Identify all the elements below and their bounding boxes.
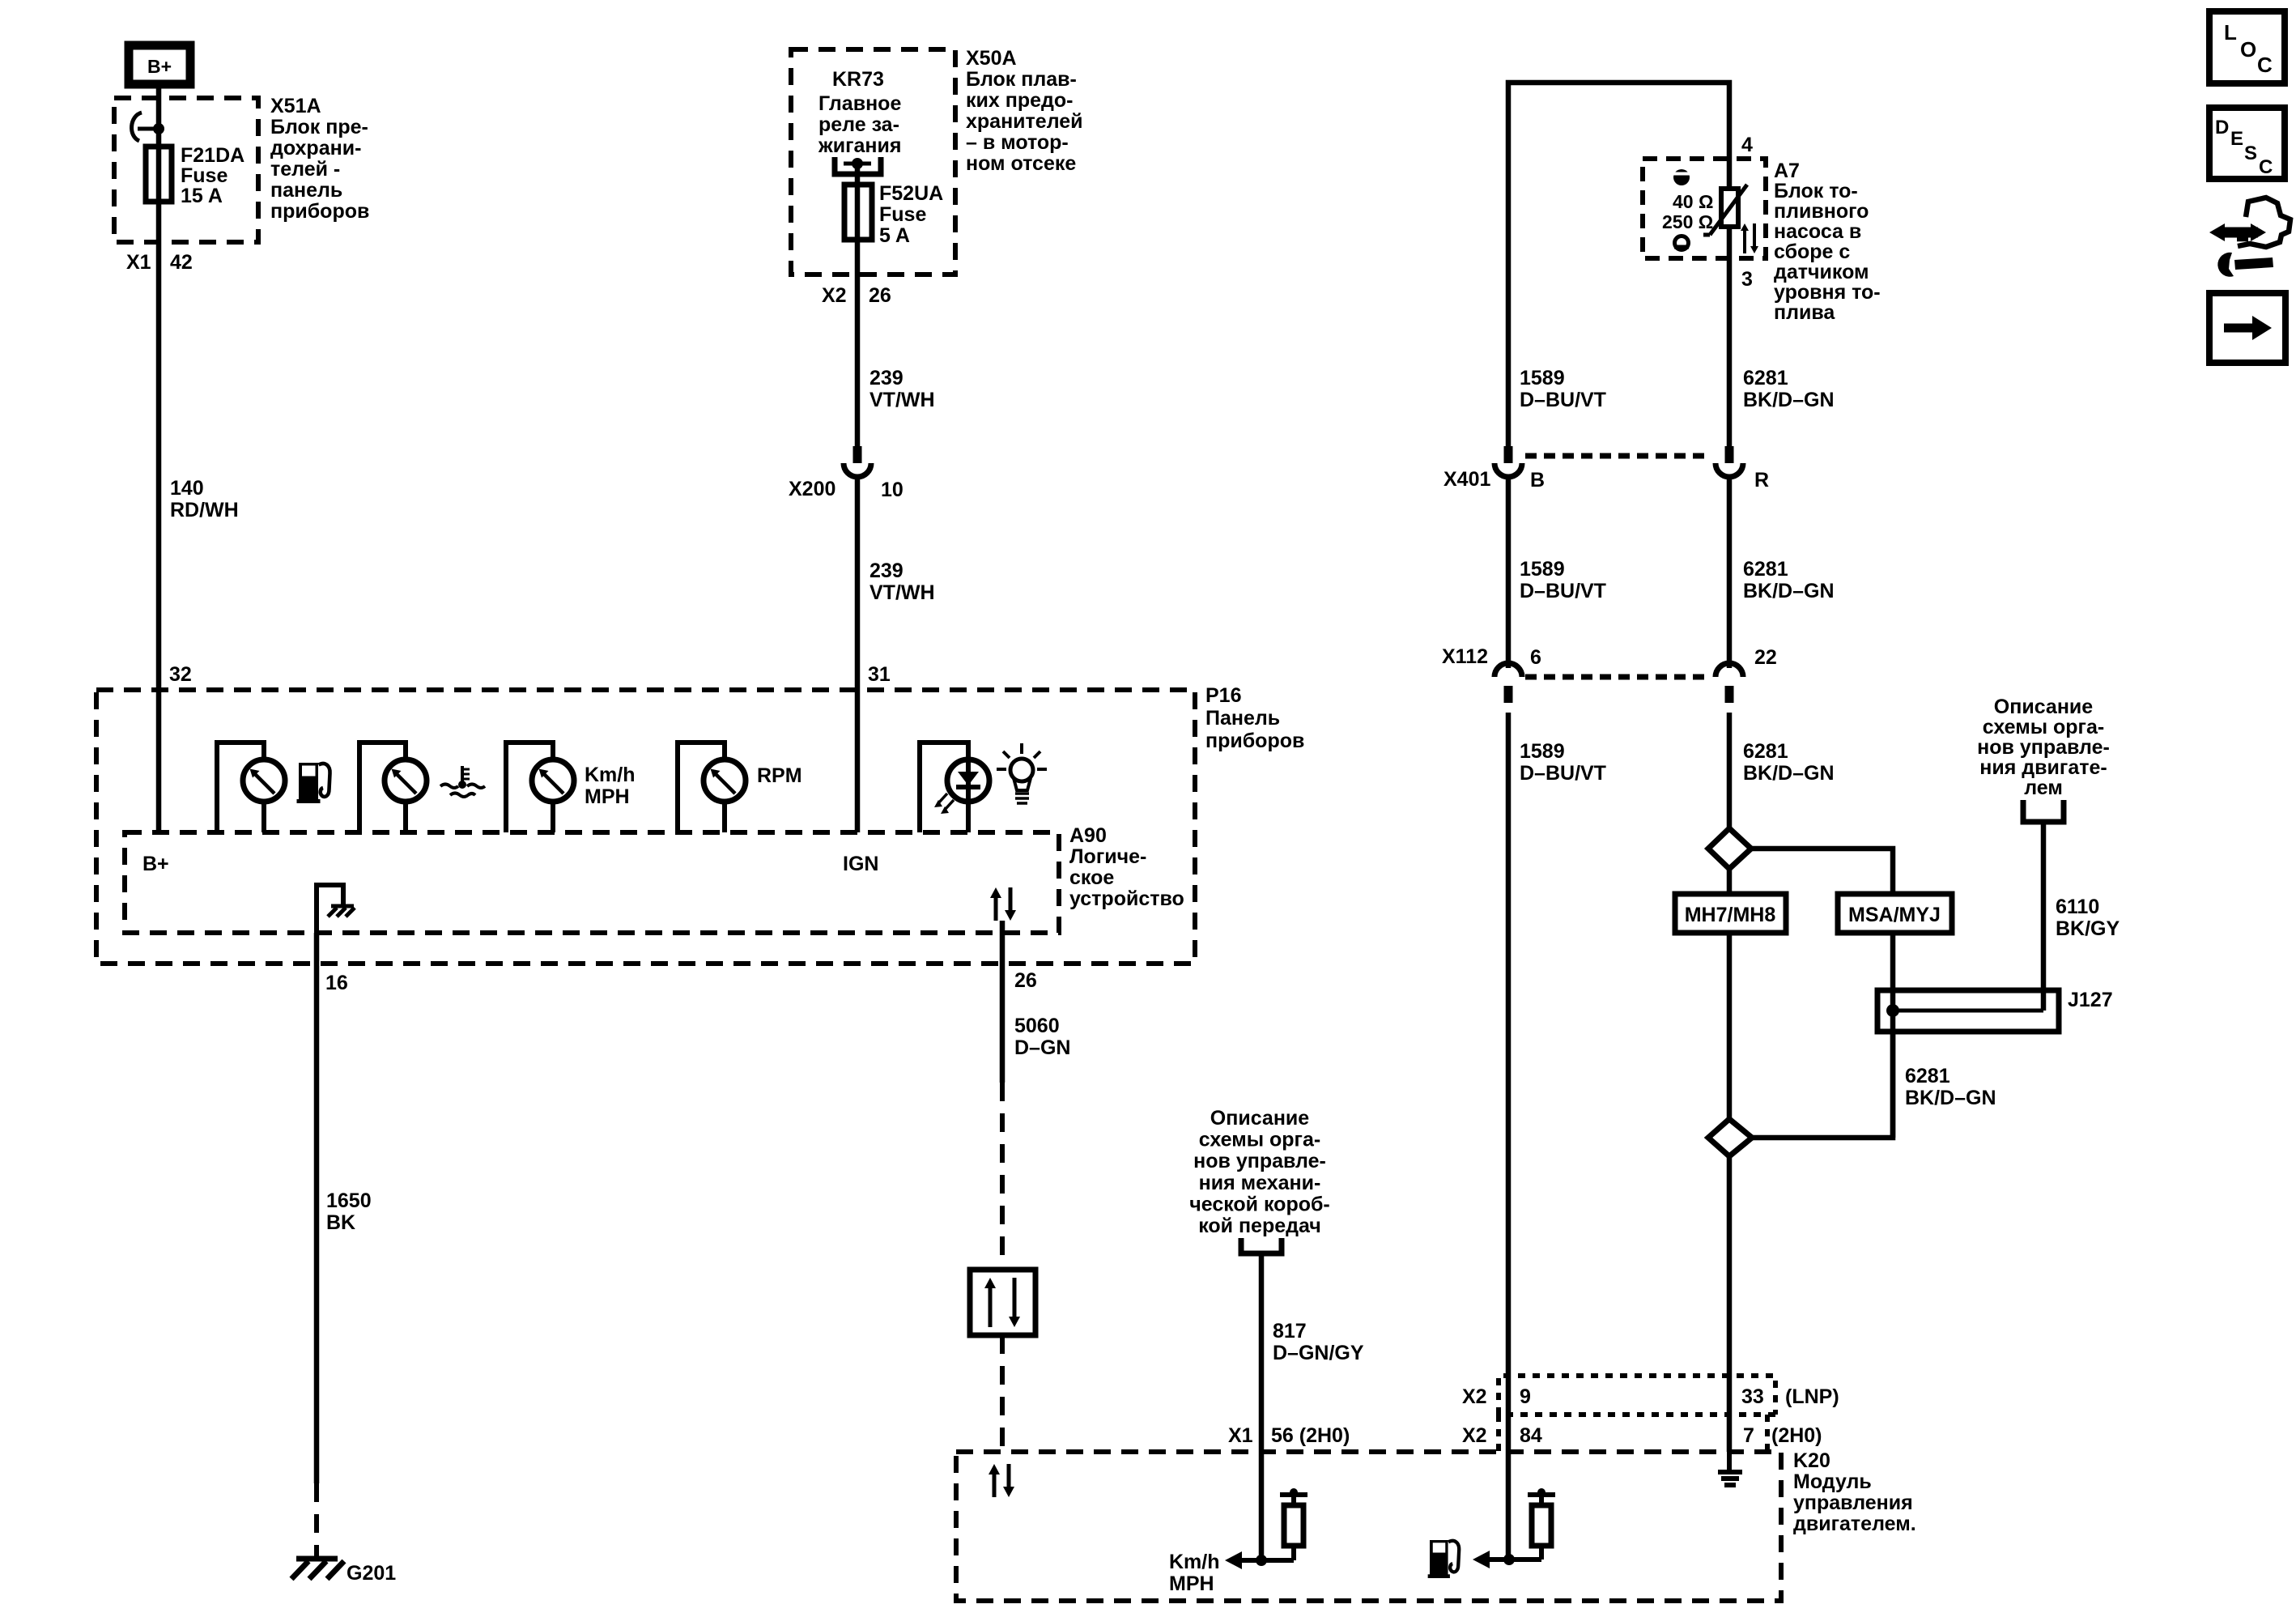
svg-text:A90: A90: [1069, 824, 1107, 847]
svg-text:A7: A7: [1774, 160, 1800, 182]
svg-text:MH7/MH8: MH7/MH8: [1685, 904, 1776, 926]
svg-text:хранителей: хранителей: [966, 110, 1083, 133]
arrow to speedometer output: [1230, 1558, 1294, 1563]
svg-text:X401: X401: [1444, 468, 1490, 491]
svg-text:9: 9: [1520, 1385, 1531, 1408]
svg-text:Панель: Панель: [1205, 707, 1280, 730]
svg-text:S: S: [2244, 143, 2257, 164]
fuse holder clip symbol in X51A: [132, 113, 142, 141]
splice diamond S1: [1708, 828, 1751, 869]
wire 1589 down to K20: [1506, 713, 1512, 1560]
temperature icon by gauge G2: [461, 766, 464, 783]
connector X401 B male pin: [1504, 446, 1513, 463]
instrument panel P16 dashed box: [96, 690, 1195, 964]
fuel pump icon in K20: [1428, 1540, 1460, 1578]
wire from B+ down through X51A fuse block to P16 pin 32: [156, 88, 162, 690]
svg-text:управления: управления: [1793, 1491, 1913, 1514]
svg-text:6281: 6281: [1743, 740, 1788, 763]
connector X401 B female socket: [1495, 463, 1522, 477]
junction node on relay contact: [852, 158, 863, 169]
svg-text:O: O: [2240, 37, 2256, 62]
pull-up resistor on speed signal: [1290, 1488, 1298, 1496]
svg-text:BK/D–GN: BK/D–GN: [1743, 580, 1835, 602]
svg-text:лем: лем: [2024, 777, 2063, 799]
svg-text:двигателем.: двигателем.: [1793, 1513, 1916, 1535]
svg-text:Km/h: Km/h: [1169, 1551, 1220, 1573]
connector X401 R male pin: [1725, 446, 1734, 463]
svg-text:B+: B+: [142, 853, 169, 875]
svg-text:BK: BK: [326, 1211, 355, 1234]
wire 31 into A90 IGN input: [855, 690, 861, 832]
serial data arrow box: [970, 1270, 1035, 1335]
svg-text:6281: 6281: [1743, 558, 1788, 581]
connector X200 male pin: [853, 446, 862, 463]
svg-text:D–BU/VT: D–BU/VT: [1520, 580, 1606, 602]
svg-text:MPH: MPH: [585, 785, 630, 808]
svg-text:Fuse: Fuse: [879, 203, 926, 226]
svg-text:26: 26: [869, 284, 891, 307]
svg-text:BK/D–GN: BK/D–GN: [1905, 1087, 1996, 1109]
svg-text:22: 22: [1754, 646, 1777, 669]
svg-text:IGN: IGN: [843, 853, 878, 875]
svg-text:приборов: приборов: [270, 200, 369, 223]
svg-text:Логиче-: Логиче-: [1069, 845, 1146, 868]
svg-text:Блок то-: Блок то-: [1774, 180, 1858, 202]
svg-text:239: 239: [870, 560, 904, 582]
svg-text:6: 6: [1530, 646, 1541, 669]
svg-text:31: 31: [868, 663, 891, 686]
dashed wire to G201: [314, 1483, 319, 1556]
svg-text:5060: 5060: [1014, 1015, 1060, 1037]
fuel pump icon by gauge G1: [297, 763, 330, 803]
svg-text:84: 84: [1520, 1424, 1542, 1447]
wire 6281 X112 to diamond: [1727, 713, 1733, 828]
svg-text:1589: 1589: [1520, 558, 1565, 581]
logic device A90 dashed box: [125, 832, 1059, 933]
svg-text:Главное: Главное: [818, 92, 901, 115]
svg-text:Описание: Описание: [1994, 696, 2093, 718]
svg-text:10: 10: [881, 479, 904, 501]
svg-text:J127: J127: [2068, 989, 2113, 1011]
svg-text:7: 7: [1743, 1424, 1754, 1447]
svg-text:G201: G201: [347, 1562, 396, 1585]
junction node on wire 1589: [1503, 1554, 1515, 1565]
svg-text:пливного: пливного: [1774, 200, 1869, 223]
wire 1589 X401 to X112: [1506, 479, 1512, 668]
wire from relay through fuse F52UA to X200: [855, 164, 861, 446]
svg-text:X1: X1: [1228, 1424, 1253, 1447]
arrow to fuel gauge output: [1478, 1557, 1541, 1562]
svg-text:Блок плав-: Блок плав-: [966, 68, 1077, 91]
svg-text:X2: X2: [822, 284, 847, 307]
power feed B+ terminal box: [129, 45, 190, 84]
svg-text:панель: панель: [270, 179, 342, 202]
svg-text:32: 32: [169, 663, 192, 686]
svg-text:схемы орга-: схемы орга-: [1983, 716, 2104, 738]
connector X401 R female socket: [1716, 463, 1743, 477]
svg-text:D–BU/VT: D–BU/VT: [1520, 389, 1606, 411]
svg-text:уровня то-: уровня то-: [1774, 281, 1881, 304]
svg-text:реле за-: реле за-: [818, 113, 899, 136]
svg-text:X112: X112: [1442, 645, 1488, 668]
svg-text:RD/WH: RD/WH: [170, 499, 239, 521]
svg-text:6110: 6110: [2056, 896, 2099, 918]
off-page bracket symbol: [1241, 1238, 1282, 1253]
svg-text:239: 239: [870, 367, 904, 389]
svg-text:ское: ское: [1069, 866, 1114, 889]
wire 6281 from A7 pin 3 to X401 R: [1727, 227, 1733, 446]
svg-text:P16: P16: [1205, 684, 1241, 707]
svg-text:устройство: устройство: [1069, 887, 1184, 910]
svg-text:D–GN: D–GN: [1014, 1036, 1070, 1059]
transmission variant box MSA/MYJ: [1838, 894, 1952, 933]
chassis ground symbol inside A90: [317, 885, 343, 933]
indicator G5 LED lamp bracket: [920, 743, 968, 832]
connector X401 dashed link: [1525, 453, 1711, 459]
splice diamond S2: [1708, 1119, 1752, 1156]
svg-text:B: B: [1530, 469, 1545, 491]
svg-text:Fuse: Fuse: [181, 164, 227, 187]
fuse block X50A dashed box: [791, 49, 955, 274]
junction node on wire at X51A clip: [153, 123, 164, 134]
fuse block X51A dashed box: [114, 98, 258, 242]
svg-text:KR73: KR73: [832, 68, 884, 91]
fuse F52UA 5A: [844, 185, 872, 240]
dashed wire 5060 down to arrow box: [1000, 1083, 1005, 1270]
svg-text:ния механи-: ния механи-: [1199, 1172, 1321, 1194]
svg-text:42: 42: [170, 251, 193, 274]
svg-text:датчиком: датчиком: [1774, 261, 1869, 283]
wire 32 into A90 B+ input: [156, 690, 162, 832]
svg-text:Модуль: Модуль: [1793, 1470, 1872, 1493]
connector X112 22 male pin: [1725, 686, 1734, 703]
LED triangle and cathode bar: [958, 772, 979, 785]
icon box LOC: [2209, 11, 2285, 83]
top loop wire of fuel sender A7: [1508, 83, 1729, 453]
svg-text:(2H0): (2H0): [1771, 1424, 1822, 1447]
svg-text:1589: 1589: [1520, 367, 1565, 389]
svg-text:жигания: жигания: [818, 134, 901, 157]
connector X112 22 female socket: [1716, 663, 1743, 677]
svg-text:817: 817: [1273, 1320, 1307, 1343]
splice pack J127 box: [1877, 990, 2059, 1032]
fuse F21DA 15A: [146, 147, 172, 202]
wire MSA/MYJ down through J127: [1890, 933, 1896, 1138]
svg-text:1650: 1650: [326, 1189, 372, 1212]
svg-text:– в мотор-: – в мотор-: [966, 131, 1069, 154]
empty-level circle in A7: [1675, 236, 1689, 250]
branch wire from J127 to diamond S2: [1752, 1032, 1893, 1138]
svg-text:кой передач: кой передач: [1198, 1215, 1321, 1237]
svg-text:насоса в: насоса в: [1774, 220, 1861, 243]
svg-text:6281: 6281: [1743, 367, 1788, 389]
svg-text:телей -: телей -: [270, 158, 340, 181]
splice bus line inside J127: [1893, 1009, 2043, 1013]
svg-text:B+: B+: [147, 56, 172, 77]
svg-text:1589: 1589: [1520, 740, 1565, 763]
pull-up resistor on fuel signal: [1537, 1488, 1546, 1496]
connector X112 dashed link: [1525, 674, 1711, 680]
svg-text:Km/h: Km/h: [585, 764, 636, 786]
up-down arrows in A7: [1743, 231, 1746, 253]
svg-text:250 Ω: 250 Ω: [1662, 211, 1713, 232]
svg-text:ких предо-: ких предо-: [966, 89, 1073, 112]
wire 817 D-GN/GY down to K20 X1-56: [1259, 1253, 1265, 1560]
svg-text:MPH: MPH: [1169, 1572, 1214, 1595]
wire 1650 BK from pin 16 down: [314, 933, 320, 1483]
wire from diamond S1 to MH7/MH8: [1727, 869, 1733, 894]
svg-text:X2: X2: [1462, 1424, 1487, 1447]
svg-text:16: 16: [325, 972, 348, 994]
wire MH7/MH8 down to diamond S2: [1727, 933, 1733, 1119]
svg-text:140: 140: [170, 477, 204, 500]
light bulb icon by G5: [1010, 759, 1033, 781]
full-level dot in A7: [1673, 169, 1690, 185]
svg-text:X51A: X51A: [270, 95, 321, 117]
svg-text:дохрани-: дохрани-: [270, 137, 361, 160]
relay KR73 contact symbol: [835, 157, 881, 174]
svg-text:C: C: [2259, 156, 2273, 178]
sender A7 dashed box: [1643, 159, 1766, 258]
svg-text:плива: плива: [1774, 301, 1835, 324]
svg-text:X200: X200: [789, 478, 835, 500]
svg-text:сборе с: сборе с: [1774, 240, 1850, 263]
svg-text:VT/WH: VT/WH: [870, 389, 935, 411]
svg-text:F21DA: F21DA: [181, 144, 244, 167]
svg-text:6281: 6281: [1905, 1065, 1950, 1087]
svg-text:ческой короб-: ческой короб-: [1189, 1193, 1330, 1215]
svg-text:D–GN/GY: D–GN/GY: [1273, 1342, 1364, 1364]
svg-text:X2: X2: [1462, 1385, 1487, 1408]
svg-text:нов управле-: нов управле-: [1977, 736, 2110, 759]
LED photon arrows: [938, 794, 947, 803]
svg-text:3: 3: [1741, 268, 1753, 291]
connector row box X2 84-7: [1499, 1415, 1775, 1452]
up-down arrows inside K20: [993, 1474, 997, 1497]
icon box next-page arrow: [2209, 293, 2285, 363]
svg-text:(LNP): (LNP): [1785, 1385, 1839, 1408]
svg-text:BK/D–GN: BK/D–GN: [1743, 762, 1835, 785]
up-down arrows inside arrow box: [989, 1288, 993, 1327]
svg-text:BK/GY: BK/GY: [2056, 917, 2120, 940]
svg-text:E: E: [2230, 128, 2243, 150]
svg-text:приборов: приборов: [1205, 730, 1304, 752]
svg-text:RPM: RPM: [757, 764, 802, 787]
svg-text:BK/D–GN: BK/D–GN: [1743, 389, 1835, 411]
svg-text:D–BU/VT: D–BU/VT: [1520, 762, 1606, 785]
svg-text:ния двигате-: ния двигате-: [1979, 756, 2107, 779]
svg-text:33: 33: [1741, 1385, 1764, 1408]
transmission variant box MH7/MH8: [1675, 894, 1786, 933]
svg-text:26: 26: [1014, 969, 1037, 992]
gauge G2 temperature gauge: [359, 743, 406, 832]
svg-text:ном отсеке: ном отсеке: [966, 152, 1076, 175]
ground symbol inside K20: [1727, 1452, 1732, 1472]
svg-text:R: R: [1754, 469, 1769, 491]
up-down arrows inside A90 output: [994, 898, 998, 921]
svg-text:5 A: 5 A: [879, 224, 910, 247]
gauge G4 tachometer: [678, 743, 725, 832]
svg-text:VT/WH: VT/WH: [870, 581, 935, 604]
gauge G3 speedometer: [506, 743, 553, 832]
svg-text:схемы орга-: схемы орга-: [1199, 1129, 1320, 1151]
svg-text:Описание: Описание: [1210, 1107, 1309, 1130]
svg-text:MSA/MYJ: MSA/MYJ: [1848, 904, 1941, 926]
svg-text:15 A: 15 A: [181, 185, 223, 207]
icon box DESC: [2209, 108, 2285, 179]
svg-text:X50A: X50A: [966, 47, 1017, 70]
off-page bracket symbol engine: [2023, 800, 2064, 822]
branch wire from S1 to MSA/MYJ: [1751, 849, 1893, 894]
wire from X200 to P16 pin 31: [855, 479, 861, 690]
svg-text:Блок пре-: Блок пре-: [270, 116, 368, 138]
svg-text:4: 4: [1741, 134, 1753, 156]
icon vehicle with arrow and wrench: [2237, 198, 2290, 247]
dashed wire from arrow box to K20: [1000, 1335, 1005, 1452]
svg-text:F52UA: F52UA: [879, 182, 943, 205]
junction node on wire 817: [1256, 1555, 1267, 1566]
svg-text:C: C: [2257, 53, 2273, 77]
svg-text:56 (2H0): 56 (2H0): [1271, 1424, 1350, 1447]
connector X112 6 female socket: [1495, 663, 1522, 677]
wire 26 from A90 down (solid): [1000, 921, 1006, 1083]
svg-text:K20: K20: [1793, 1449, 1830, 1472]
svg-text:D: D: [2215, 117, 2229, 138]
wire 6281 X401 to X112: [1727, 479, 1733, 668]
connector row box X2 9-33: [1499, 1376, 1775, 1415]
svg-text:нов управле-: нов управле-: [1193, 1150, 1326, 1172]
connector X200 female socket: [844, 463, 871, 477]
wire 6110 BK/GY down to J127: [2041, 822, 2047, 1011]
svg-text:40 Ω: 40 Ω: [1673, 191, 1713, 212]
ground G201 symbol: [296, 1556, 338, 1562]
svg-text:X1: X1: [126, 251, 151, 274]
indicator G5 LED circle: [947, 760, 989, 802]
variable resistor fuel sender: [1721, 189, 1738, 227]
engine control module K20 dashed box: [956, 1452, 1781, 1601]
junction node in J127: [1886, 1004, 1899, 1017]
gauge G1 fuel gauge: [217, 743, 264, 832]
connector X112 6 male pin: [1504, 686, 1513, 703]
wire from diamond S2 to K20 pin 7: [1727, 1156, 1733, 1452]
svg-text:L: L: [2224, 20, 2237, 45]
